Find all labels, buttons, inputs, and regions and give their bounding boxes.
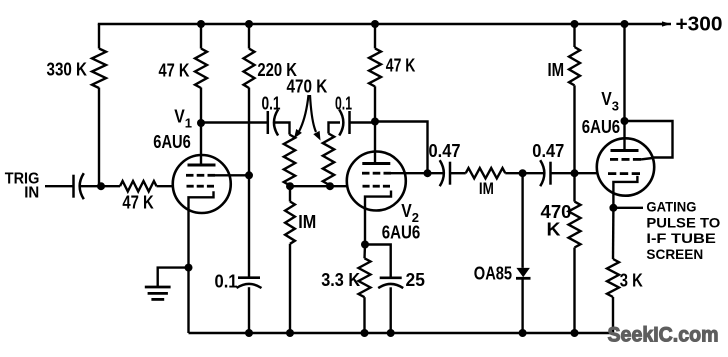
svg-text:IM: IM	[479, 179, 494, 198]
svg-text:PULSE TO: PULSE TO	[646, 214, 720, 230]
svg-text:47 K: 47 K	[386, 56, 416, 76]
wire +300 top supply rail	[98, 23, 671, 25]
resistor 47K (V1 plate load)	[195, 49, 207, 89]
svg-text:25: 25	[406, 270, 425, 290]
node input junction	[97, 182, 105, 190]
node top rail junction C	[371, 20, 379, 28]
tube V2 control grid (dashes)	[363, 185, 370, 188]
tube V3 envelope	[597, 138, 654, 195]
wire rail to V3 plate node	[623, 24, 625, 121]
wire diode to ground rail	[521, 278, 523, 333]
arrow to 470K no.2	[310, 95, 316, 132]
power terminal +300 arrowhead	[662, 21, 671, 26]
node top rail junction E	[621, 20, 629, 28]
tube V3 plate	[611, 149, 639, 152]
wire junction to 470K	[573, 173, 575, 201]
tube V2 envelope	[347, 152, 406, 211]
wire 0.47 no.1 to 1M	[450, 172, 466, 174]
wire diode node to diode	[521, 173, 523, 268]
wire coupling cap to 470K no.1	[274, 123, 289, 135]
svg-text:3 K: 3 K	[620, 271, 643, 291]
wire screen node to bypass cap	[248, 175, 250, 277]
svg-text:330 K: 330 K	[47, 59, 88, 79]
svg-text:IM: IM	[298, 212, 316, 232]
wire 3K to ground rail	[612, 297, 614, 333]
wire rail to 1M	[573, 24, 575, 47]
capacitor 25 (cathode bypass)	[380, 276, 402, 279]
node V3 grid junction	[571, 169, 579, 177]
wire V3 grid node to V3	[575, 172, 598, 174]
wire V3 screen-plate strap	[625, 121, 673, 158]
svg-text:V: V	[601, 89, 612, 109]
wire 470K to ground rail	[573, 248, 575, 334]
node ground rail junction (3.3K)	[361, 329, 369, 337]
node V1 screen junction	[245, 171, 253, 179]
wire rail to 47K	[200, 24, 202, 49]
svg-text:I-F TUBE: I-F TUBE	[646, 230, 715, 246]
resistor 47K (V2 plate load)	[369, 48, 381, 86]
wire input node to 47K	[101, 185, 120, 187]
wire V1 plate stem	[200, 123, 202, 165]
tube V1 control grid (dashes)	[187, 185, 194, 188]
arrow to 470K no.1	[299, 95, 309, 132]
wire 47K to V1 plate node	[200, 88, 202, 123]
resistor 1M (series)	[466, 168, 506, 178]
svg-text:0.47: 0.47	[429, 141, 461, 161]
tube V3 cathode	[613, 176, 637, 194]
svg-text:SeekIC.com: SeekIC.com	[608, 323, 719, 347]
wire 330K to input node	[99, 88, 101, 187]
svg-text:0.1: 0.1	[215, 272, 238, 292]
wire 470K no.2 top to cap	[329, 123, 341, 134]
svg-text:V: V	[174, 107, 185, 127]
resistor 1M (V3 grid feed)	[569, 47, 580, 85]
resistor 3.3K (V2 cathode)	[359, 258, 371, 297]
wire 1M to diode node	[505, 172, 522, 174]
node V1 plate junction	[197, 119, 205, 127]
tube V1 envelope	[173, 155, 231, 213]
wire to ground symbol	[158, 268, 189, 287]
node ground rail junction (1M)	[286, 329, 294, 337]
wire 3.3K to ground rail	[363, 297, 365, 333]
wire top rail corner to 330K	[98, 24, 100, 49]
capacitor input coupling	[72, 175, 75, 198]
wire 470K no.2 bottom	[329, 185, 330, 187]
capacitor 0.47 no.1	[449, 162, 452, 185]
svg-text:GATING: GATING	[646, 198, 696, 214]
wire screen dash to strap	[641, 158, 653, 159]
svg-text:0.47: 0.47	[532, 141, 564, 161]
svg-text:47 K: 47 K	[122, 193, 153, 213]
svg-text:IN: IN	[24, 185, 39, 202]
node diode junction	[519, 169, 527, 177]
node ground rail junction (470K)	[571, 329, 579, 337]
wire rail to 220K	[248, 24, 250, 49]
tube V1 plate	[188, 164, 216, 167]
wire V2 screen to output node	[391, 172, 428, 174]
node V2 output junction	[424, 169, 432, 177]
node 470K bottoms junction 2	[326, 182, 334, 190]
wire output node to 0.47 no.1	[428, 172, 444, 174]
ground symbol	[145, 286, 171, 289]
resistor 470K no.1	[284, 135, 295, 186]
diode 0A85	[516, 268, 530, 277]
node V3 plate junction	[621, 117, 629, 125]
wire V3 plate stem	[623, 121, 625, 151]
svg-text:6AU6: 6AU6	[153, 132, 191, 152]
resistor 330K (grid return)	[92, 49, 106, 89]
svg-text:0.1: 0.1	[262, 94, 281, 114]
wire cathode node to 25 cap	[365, 245, 391, 278]
wire V3 cathode lead	[612, 193, 614, 208]
resistor 47K (V1 grid stopper)	[120, 181, 157, 191]
svg-text:0.1: 0.1	[335, 94, 352, 114]
wire V1 screen to 220K node	[215, 174, 249, 176]
resistor 3K (output load)	[607, 259, 619, 297]
wire V2 plate stem	[374, 122, 376, 164]
node top rail junction A	[197, 20, 205, 28]
wire trig input	[45, 185, 74, 187]
node V2 plate junction	[371, 118, 379, 126]
svg-text:3.3 K: 3.3 K	[321, 270, 360, 290]
svg-text:+300: +300	[676, 14, 723, 36]
node ground rail junction (bypass cap)	[245, 329, 253, 337]
svg-text:OA85: OA85	[474, 264, 512, 284]
resistor 470K (V3 grid)	[569, 202, 581, 248]
svg-text:6AU6: 6AU6	[582, 117, 620, 137]
wire 1M to row junction	[573, 85, 575, 173]
wire diode node to 0.47 no.2	[523, 172, 545, 174]
svg-text:V: V	[401, 201, 412, 221]
tube V3 control grid (dashes)	[608, 172, 616, 175]
wire bottom ground rail	[189, 332, 614, 334]
svg-text:SCREEN: SCREEN	[646, 246, 703, 262]
tube V1 screen grid (dashes)	[186, 174, 194, 177]
wire V2 plate node to corner	[375, 122, 428, 174]
node ground rail junction (diode)	[519, 329, 527, 337]
wire 25 cap to ground rail	[390, 287, 392, 333]
svg-text:47 K: 47 K	[159, 61, 190, 81]
svg-text:470 K: 470 K	[287, 77, 328, 97]
wire V1 plate to coupling cap	[201, 121, 268, 123]
tube V2 plate	[362, 162, 390, 165]
wire V2 grid	[330, 185, 348, 187]
svg-text:3: 3	[612, 99, 619, 114]
tube V3 screen grid (dashes)	[610, 158, 618, 161]
svg-text:1: 1	[185, 116, 192, 131]
svg-text:6AU6: 6AU6	[382, 223, 421, 243]
svg-text:K: K	[547, 219, 561, 239]
tube V1 cathode	[189, 191, 214, 333]
node top rail junction D	[571, 20, 579, 28]
wire input cap to node	[80, 185, 101, 187]
svg-text:IM: IM	[548, 60, 565, 80]
wire rail to 47K (V2)	[374, 24, 376, 48]
wire junction row to 470K no.2	[290, 185, 330, 187]
wire 470K no.1 to junction	[288, 185, 290, 186]
capacitor 0.1 (V1 plate coupling)	[267, 111, 270, 134]
capacitor 0.1 (screen bypass)	[238, 276, 260, 279]
wire cathode node to 3.3K	[363, 245, 366, 259]
resistor 470K no.2	[323, 134, 334, 185]
wire coupling cap to V2 plate node	[350, 121, 376, 123]
node V2 cathode junction	[361, 241, 369, 249]
wire V2 cathode lead	[364, 208, 366, 245]
resistor 220K (V1 screen)	[244, 49, 255, 89]
wire junction to 1M grid leak	[289, 186, 291, 201]
node V3 cathode output junction	[609, 204, 617, 212]
node top rail junction B	[245, 20, 253, 28]
wire output tap	[613, 207, 643, 209]
wire bypass cap to ground rail	[248, 287, 250, 333]
wire 0.47 no.2 to V3 grid node	[551, 172, 575, 174]
node ground rail junction (25)	[387, 329, 395, 337]
node cathode ground junction	[185, 264, 193, 272]
resistor 1M (grid leak)	[285, 202, 295, 244]
capacitor 0.47 no.2	[549, 162, 552, 185]
wire 47K to V1 grid	[157, 185, 174, 187]
wire cathode junction to 3K	[612, 208, 615, 259]
wire 47K to V2 plate node	[374, 86, 376, 121]
tube V2 screen grid (dashes)	[362, 172, 370, 175]
node 470K bottoms junction 1	[286, 182, 294, 190]
tube V2 cathode	[365, 191, 391, 211]
capacitor 0.1 (V2 plate coupling)	[348, 111, 351, 134]
wire 1M to ground rail	[289, 244, 291, 333]
wire 220K to screen node	[248, 88, 250, 176]
